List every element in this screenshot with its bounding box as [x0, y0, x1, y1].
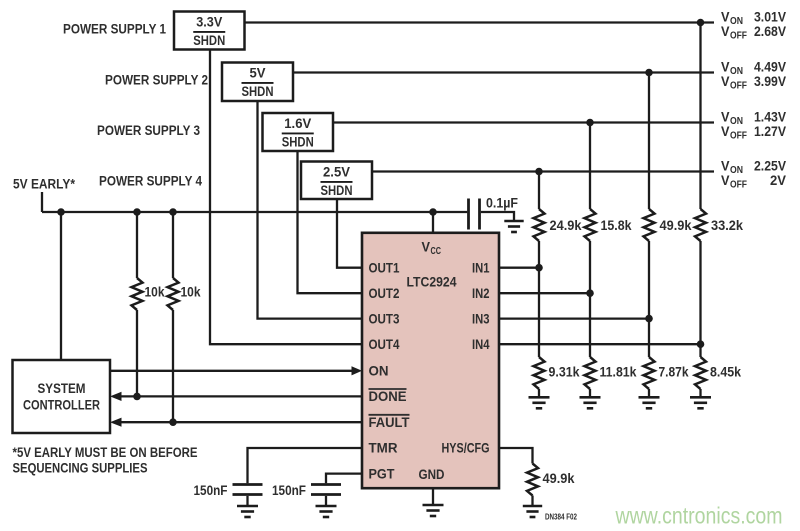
svg-text:24.9k: 24.9k [550, 218, 582, 233]
svg-text:V: V [721, 9, 730, 24]
pin label GND [419, 467, 445, 482]
label: VOFF supply 2 [721, 74, 786, 92]
svg-text:SYSTEM: SYSTEM [38, 381, 86, 396]
pin label DONE (active low) [369, 389, 407, 404]
junction: 10k#1 to DONE [133, 393, 141, 401]
label: VOFF supply 1 [721, 24, 786, 42]
svg-text:SHDN: SHDN [242, 84, 274, 99]
wire: supply 4 output rail [372, 170, 714, 172]
label: 10k #1 [145, 285, 165, 300]
wire: rail to controller [60, 212, 62, 360]
wire: column supply 1 upper [699, 23, 701, 210]
wire: IN3 to divider [499, 317, 649, 319]
wire: supply 2 output rail [293, 71, 714, 73]
svg-text:OUT3: OUT3 [369, 311, 400, 326]
junction: supply 2 tap [645, 69, 653, 77]
svg-text:V: V [721, 173, 730, 188]
svg-text:SHDN: SHDN [282, 134, 314, 149]
svg-text:10k: 10k [145, 285, 165, 300]
svg-text:8.45k: 8.45k [710, 365, 741, 380]
svg-text:POWER SUPPLY 2: POWER SUPPLY 2 [105, 73, 208, 88]
svg-text:2.25V: 2.25V [754, 158, 786, 173]
resistor R 7.87k (bottom divider) [644, 357, 655, 389]
wire: column supply 2 mid [648, 241, 650, 357]
wire: supply 1 output rail [245, 21, 715, 23]
label: 15.8k [601, 218, 632, 233]
wire: supply 3 SHDN from OUT2 [298, 151, 363, 293]
resistor R 11.81k (bottom divider) [585, 357, 596, 389]
svg-text:CC: CC [431, 246, 442, 257]
system controller box [13, 360, 111, 433]
wire: column supply 1 mid [699, 241, 701, 357]
label: power supply 2 [105, 73, 208, 88]
junction: IN1 divider tap [535, 264, 543, 272]
svg-text:OFF: OFF [730, 179, 747, 190]
pin label PGT [369, 466, 396, 481]
svg-text:HYS/CFG: HYS/CFG [442, 441, 490, 456]
power supply 1 regulator box 3.3V/SHDN [174, 12, 245, 50]
svg-text:1.6V: 1.6V [284, 116, 311, 131]
pin label HYS/CFG [442, 441, 490, 456]
pin label IN4 [472, 337, 490, 352]
label: power supply 3 [97, 123, 200, 138]
svg-text:5V: 5V [250, 66, 266, 81]
svg-text:OUT1: OUT1 [369, 260, 400, 275]
wire: HYS/CFG to R49.9k [499, 448, 533, 464]
svg-text:*5V EARLY MUST BE ON BEFORE: *5V EARLY MUST BE ON BEFORE [13, 445, 198, 460]
label: 9.31k [549, 365, 580, 380]
wire: R49.9k to ground [531, 496, 533, 506]
resistor R 49.9k (HYS/CFG) [527, 464, 538, 496]
capacitor C 0.1uF [469, 199, 480, 230]
wire: supply 4 SHDN from OUT1 [337, 199, 362, 268]
wire: C1 to ground [246, 496, 248, 506]
ground (HYS/CFG) [523, 506, 542, 517]
svg-text:V: V [721, 158, 730, 173]
svg-text:IN1: IN1 [472, 260, 490, 275]
capacitor C 150nF (PGT) [311, 485, 341, 495]
svg-text:POWER SUPPLY 4: POWER SUPPLY 4 [99, 174, 202, 189]
label: VON supply 2 [721, 59, 786, 77]
wire: column supply 3 upper [589, 123, 591, 210]
svg-text:9.31k: 9.31k [549, 365, 580, 380]
svg-text:TMR: TMR [369, 441, 398, 456]
junction: IN2 divider tap [586, 289, 594, 297]
svg-text:1.43V: 1.43V [754, 109, 786, 124]
junction: IN4 divider tap [697, 340, 705, 348]
svg-text:SEQUENCING SUPPLIES: SEQUENCING SUPPLIES [13, 461, 148, 476]
pin label IN2 [472, 286, 490, 301]
svg-text:FAULT: FAULT [369, 415, 411, 430]
wire: GND pin [432, 488, 434, 504]
pin label OUT4 [369, 337, 400, 352]
svg-text:OFF: OFF [730, 130, 747, 141]
resistor R 10k #1 [132, 278, 143, 310]
label: VCC pin [422, 239, 442, 257]
pin label OUT1 [369, 260, 400, 275]
svg-text:V: V [422, 239, 431, 254]
pin label ON [369, 364, 389, 379]
svg-text:11.81k: 11.81k [600, 365, 637, 380]
wire: R10k#1 upper [136, 212, 138, 278]
svg-text:PGT: PGT [369, 466, 396, 481]
svg-text:33.2k: 33.2k [711, 218, 743, 233]
wire: column supply 3 lower [589, 389, 591, 397]
note: 5V EARLY must be on [13, 445, 198, 476]
watermark www.cntronics.com [615, 503, 783, 529]
svg-text:IN3: IN3 [472, 311, 490, 326]
wire: IN2 to divider [499, 292, 590, 294]
label: VOFF supply 3 [721, 124, 786, 142]
svg-text:ON: ON [369, 364, 389, 379]
svg-text:GND: GND [419, 467, 445, 482]
ground (divider 1) [690, 397, 711, 408]
label: VOFF supply 4 [721, 173, 786, 191]
resistor R 24.9k (top divider) [534, 209, 545, 241]
junction: rail to R 10k #1 [133, 208, 141, 216]
svg-text:2V: 2V [770, 173, 786, 188]
power supply 3 regulator box 1.6V/SHDN [263, 113, 334, 151]
svg-text:SHDN: SHDN [321, 183, 353, 198]
capacitor C 150nF (TMR) [233, 485, 263, 495]
label: 11.81k [600, 365, 637, 380]
svg-text:V: V [721, 109, 730, 124]
wire: FAULT signal [121, 421, 362, 423]
wire: 5V EARLY stub [41, 192, 43, 212]
power supply 2 regulator box 5V/SHDN [222, 63, 293, 102]
wire: column supply 4 mid [538, 241, 540, 357]
svg-text:2.68V: 2.68V [754, 24, 786, 39]
wire: DONE signal [121, 395, 362, 397]
junction: rail to system controller [57, 208, 65, 216]
node 5V EARLY* [13, 177, 76, 192]
wire: supply 3 output rail [333, 121, 714, 123]
resistor R 15.8k (top divider) [585, 209, 596, 241]
svg-text:IN2: IN2 [472, 286, 490, 301]
resistor R 10k #2 [168, 278, 179, 310]
power supply 4 regulator box 2.5V/SHDN [301, 162, 372, 200]
pin label OUT3 [369, 311, 400, 326]
resistor R 33.2k (top divider) [695, 209, 706, 241]
wire: TMR to C1 [248, 448, 363, 483]
wire: column supply 2 upper [648, 73, 650, 210]
svg-text:7.87k: 7.87k [659, 365, 689, 380]
label: 10k #2 [181, 285, 201, 300]
op-amp U1 LTC2924 sequencer IC [362, 233, 499, 488]
svg-text:OUT4: OUT4 [369, 337, 400, 352]
label: LTC2924 [407, 274, 457, 289]
wire: IN4 to divider [499, 343, 701, 345]
wire: R10k#1 lower [136, 310, 138, 396]
svg-text:DONE: DONE [369, 389, 407, 404]
svg-text:2.5V: 2.5V [323, 165, 350, 180]
label: power supply 4 [99, 174, 202, 189]
wire: ON signal [110, 370, 353, 372]
wire: column supply 3 mid [589, 241, 591, 357]
label: 24.9k [550, 218, 582, 233]
arrow into controller (FAULT) [110, 418, 122, 427]
wire: column supply 2 lower [648, 389, 650, 397]
junction: supply 4 tap [535, 168, 543, 176]
wire: column supply 1 lower [699, 389, 701, 397]
wire: R10k#2 lower [172, 310, 174, 422]
svg-text:POWER SUPPLY 1: POWER SUPPLY 1 [63, 22, 166, 37]
ground (C2) [316, 506, 337, 517]
label: VON supply 1 [721, 9, 786, 27]
pin label IN3 [472, 311, 490, 326]
svg-text:OFF: OFF [730, 30, 747, 41]
svg-text:3.99V: 3.99V [754, 74, 786, 89]
svg-text:49.9k: 49.9k [543, 471, 575, 486]
svg-text:OFF: OFF [730, 80, 747, 91]
svg-text:0.1µF: 0.1µF [486, 196, 518, 211]
svg-text:3.01V: 3.01V [754, 9, 786, 24]
label: DN384 F02 [545, 513, 577, 522]
resistor R 8.45k (bottom divider) [695, 357, 706, 389]
ground (divider 4) [529, 397, 550, 408]
wire: 5V EARLY rail [42, 211, 467, 213]
wire: VCC feed [432, 212, 434, 233]
svg-text:1.27V: 1.27V [754, 124, 786, 139]
wire: cap to ground [481, 212, 514, 221]
svg-text:150nF: 150nF [194, 483, 228, 498]
resistor R 9.31k (bottom divider) [534, 357, 545, 389]
svg-text:ON: ON [730, 66, 743, 77]
ground (0.1uF) [504, 221, 523, 232]
svg-text:LTC2924: LTC2924 [407, 274, 457, 289]
wire: column supply 4 lower [538, 389, 540, 397]
wire: PGT to C2 [326, 474, 362, 484]
label: VON supply 3 [721, 109, 786, 127]
junction: supply 3 tap [586, 119, 594, 127]
wire: C2 to ground [325, 496, 327, 506]
svg-text:SHDN: SHDN [193, 33, 225, 48]
label: 8.45k [710, 365, 741, 380]
label: 0.1uF [486, 196, 518, 211]
ground (divider 2) [639, 397, 660, 408]
ground (divider 3) [580, 397, 601, 408]
junction: IN3 divider tap [645, 315, 653, 323]
pin label OUT2 [369, 286, 400, 301]
wire: column supply 4 upper [538, 172, 540, 210]
svg-text:ON: ON [730, 16, 743, 27]
resistor R 49.9k (top divider) [644, 209, 655, 241]
svg-text:10k: 10k [181, 285, 201, 300]
junction: rail to VCC [429, 208, 437, 216]
ground (C1) [237, 506, 258, 517]
label: 49.9k [660, 218, 692, 233]
svg-text:4.49V: 4.49V [754, 59, 786, 74]
junction: supply 1 tap [697, 19, 705, 27]
junction: 10k#2 to FAULT [169, 418, 177, 426]
svg-text:ON: ON [730, 116, 743, 127]
wire: IN1 to divider [499, 267, 539, 269]
arrow into controller (DONE) [110, 392, 122, 401]
svg-text:www.cntronics.com: www.cntronics.com [615, 503, 783, 529]
svg-text:15.8k: 15.8k [601, 218, 632, 233]
svg-text:POWER SUPPLY 3: POWER SUPPLY 3 [97, 123, 200, 138]
svg-text:5V EARLY*: 5V EARLY* [13, 177, 76, 192]
svg-text:V: V [721, 74, 730, 89]
svg-text:IN4: IN4 [472, 337, 490, 352]
svg-text:V: V [721, 59, 730, 74]
label: 150nF (PGT) [272, 483, 306, 498]
svg-text:49.9k: 49.9k [660, 218, 692, 233]
label: 7.87k [659, 365, 689, 380]
svg-text:V: V [721, 124, 730, 139]
junction: rail to R 10k #2 [169, 208, 177, 216]
pin label TMR [369, 441, 398, 456]
wire: R10k#2 upper [172, 212, 174, 278]
svg-text:ON: ON [730, 165, 743, 176]
svg-text:OUT2: OUT2 [369, 286, 400, 301]
label: power supply 1 [63, 22, 166, 37]
label: 150nF (TMR) [194, 483, 228, 498]
label: VON supply 4 [721, 158, 786, 176]
svg-text:3.3V: 3.3V [196, 15, 222, 30]
pin label FAULT (active low) [369, 415, 411, 430]
svg-text:150nF: 150nF [272, 483, 306, 498]
svg-text:V: V [721, 24, 730, 39]
ground (GND pin) [423, 505, 444, 516]
svg-text:CONTROLLER: CONTROLLER [23, 398, 100, 413]
arrow into ON pin [352, 366, 363, 375]
label: 33.2k [711, 218, 743, 233]
pin label IN1 [472, 260, 490, 275]
label: 49.9k (HYS/CFG) [543, 471, 575, 486]
svg-text:DN384 F02: DN384 F02 [545, 513, 577, 522]
wire: supply 2 SHDN from OUT3 [258, 101, 363, 319]
wire: supply 1 SHDN from OUT4 [210, 50, 362, 345]
